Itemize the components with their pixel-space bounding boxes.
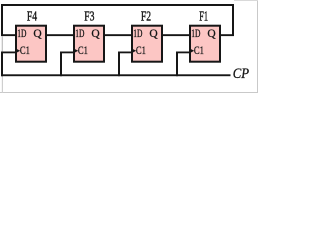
svg-text:1D: 1D — [191, 27, 200, 40]
svg-text:1D: 1D — [75, 27, 84, 40]
svg-text:Q: Q — [149, 27, 158, 40]
svg-text:Q: Q — [91, 27, 100, 40]
svg-text:C1: C1 — [136, 44, 146, 57]
svg-text:C1: C1 — [78, 44, 88, 57]
svg-text:F4: F4 — [27, 10, 37, 25]
svg-text:F2: F2 — [141, 10, 151, 25]
svg-text:Q: Q — [33, 27, 42, 40]
svg-text:F1: F1 — [199, 10, 208, 25]
svg-text:1D: 1D — [17, 27, 26, 40]
svg-text:1D: 1D — [133, 27, 142, 40]
svg-text:C1: C1 — [194, 44, 204, 57]
svg-text:Q: Q — [207, 27, 216, 40]
svg-text:C1: C1 — [20, 44, 30, 57]
svg-text:F3: F3 — [84, 10, 94, 25]
svg-text:CP: CP — [233, 66, 249, 82]
